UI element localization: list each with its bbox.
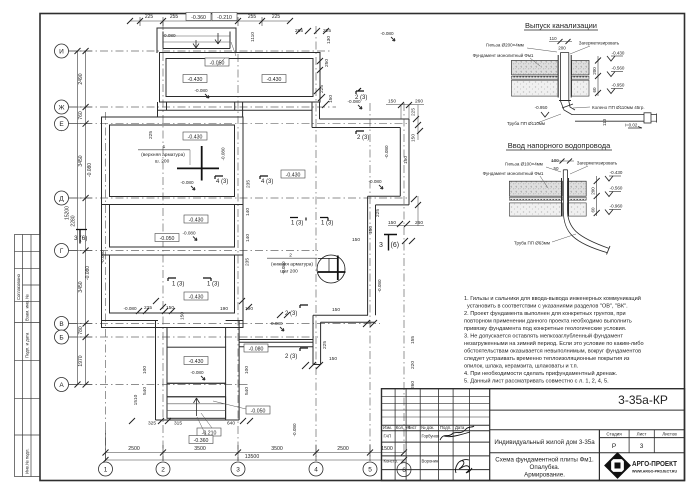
axis bubble 1 [99, 462, 113, 476]
svg-text:4 (3): 4 (3) [261, 179, 273, 185]
svg-text:Фундамент монолитный Фм1: Фундамент монолитный Фм1 [483, 170, 544, 176]
stairs landing [167, 383, 226, 397]
svg-text:Ж: Ж [58, 105, 64, 112]
right wing right wall [400, 119, 409, 205]
axis bubble Г [55, 244, 69, 258]
bottom axis bubbles [99, 462, 412, 477]
svg-text:200: 200 [592, 67, 597, 75]
svg-text:60: 60 [592, 87, 597, 93]
svg-text:опилок, шлака, керамзита, шлак: опилок, шлака, керамзита, шлаковаты и т.… [464, 364, 579, 370]
svg-text:-0.080: -0.080 [87, 163, 93, 177]
horizontal small dims on plan [144, 28, 423, 427]
svg-text:1: 1 [104, 467, 108, 474]
svg-text:-0.430: -0.430 [286, 173, 301, 179]
svg-text:1970: 1970 [78, 355, 84, 366]
axis bubble 2 [156, 462, 170, 476]
svg-text:-0.430: -0.430 [610, 170, 623, 175]
room G-V inner [110, 255, 235, 313]
svg-text:1 (3): 1 (3) [321, 221, 333, 227]
svg-text:-0.430: -0.430 [189, 218, 204, 224]
stairs up-arrow [194, 398, 200, 416]
left wing room E-D inner [110, 125, 235, 197]
axis bubble А [55, 378, 69, 392]
svg-text:225: 225 [319, 85, 325, 93]
sleeve [558, 55, 571, 98]
svg-text:235: 235 [245, 180, 251, 188]
bedding band [509, 203, 562, 216]
svg-text:Труба ПП Ø110мм: Труба ПП Ø110мм [507, 121, 545, 126]
svg-text:150: 150 [388, 99, 396, 105]
axis col 6 [403, 103, 405, 462]
waterproofing strip [509, 197, 562, 200]
axis col 4 [315, 26, 317, 461]
svg-text:Г: Г [60, 248, 64, 255]
axis bubble 3 [231, 462, 245, 476]
project name / sheet name [494, 439, 595, 479]
elbow 45deg [561, 101, 576, 115]
svg-text:-0.050: -0.050 [251, 409, 266, 415]
svg-text:Гильза Ø200×4мм: Гильза Ø200×4мм [486, 43, 524, 48]
stair treads [167, 404, 226, 411]
axis row И [69, 50, 332, 52]
svg-text:3 (6): 3 (6) [74, 235, 87, 242]
svg-text:Инв.№ подл.: Инв.№ подл. [25, 448, 30, 474]
svg-text:225: 225 [322, 341, 328, 349]
svg-text:Согласовано: Согласовано [16, 274, 21, 300]
pipe vertical + curve [563, 170, 608, 253]
svg-text:6: 6 [402, 467, 406, 474]
vertical dim line [596, 176, 598, 216]
right wing notch step [368, 196, 409, 205]
svg-text:150: 150 [352, 237, 360, 243]
svg-text:В: В [59, 321, 63, 328]
left wing room E-D outer [102, 117, 244, 205]
svg-text:2500: 2500 [128, 446, 140, 452]
axis row Ж [69, 106, 336, 108]
svg-text:ГАП: ГАП [384, 434, 392, 439]
svg-text:140: 140 [245, 234, 251, 242]
revision grid rows [382, 396, 490, 417]
svg-text:-0.080: -0.080 [368, 179, 381, 184]
svg-text:2 (3): 2 (3) [355, 95, 367, 101]
svg-text:1 (3): 1 (3) [172, 282, 184, 288]
plain -0.080 labels with slope arrows [100, 31, 395, 437]
svg-text:260: 260 [415, 99, 423, 105]
svg-text:-0.080: -0.080 [377, 279, 382, 292]
svg-text:60: 60 [591, 207, 596, 213]
svg-text:325: 325 [148, 421, 156, 427]
svg-text:150: 150 [329, 356, 337, 362]
svg-text:А: А [59, 382, 64, 389]
svg-text:Лист: Лист [637, 432, 647, 437]
svg-text:№ док.: № док. [421, 425, 434, 430]
svg-text:Загерметизировать: Загерметизировать [577, 161, 618, 166]
dimension ticks left chains [75, 48, 89, 388]
svg-text:обстоятельствам оказывается не: обстоятельствам оказывается невыполнимым… [464, 349, 641, 355]
wall band below top band [158, 109, 313, 111]
svg-text:-0.560: -0.560 [612, 66, 625, 71]
svg-text:255: 255 [170, 14, 179, 20]
wing dimension lines [386, 105, 424, 226]
svg-text:200: 200 [558, 46, 566, 51]
axis bubble И [55, 44, 69, 58]
svg-text:225: 225 [272, 14, 281, 20]
svg-text:1. Гильзы и сальники для ввода: 1. Гильзы и сальники для ввода-вывода ин… [464, 295, 641, 302]
top dimension chain over porch [130, 17, 290, 26]
leader lines for -0.210/-0.360 [197, 401, 246, 436]
svg-text:-0.430: -0.430 [612, 51, 625, 56]
svg-text:Загерметизировать: Загерметизировать [579, 41, 620, 46]
svg-text:(6): (6) [391, 242, 400, 249]
svg-text:100: 100 [551, 158, 559, 163]
elevation marks right side [612, 51, 625, 88]
svg-text:155: 155 [410, 336, 416, 344]
svg-text:4: 4 [314, 467, 318, 474]
foundation slab hatched band left/right [512, 60, 559, 75]
svg-text:1500: 1500 [381, 446, 393, 452]
svg-text:-0.430: -0.430 [267, 77, 282, 83]
svg-text:4. При необходимости сделать п: 4. При необходимости сделать прифундамен… [464, 370, 618, 377]
left vertical dimension chains [69, 51, 93, 385]
svg-text:Изм.: Изм. [383, 425, 392, 430]
coupling [644, 113, 651, 123]
svg-text:Гильза Ø100×4мм: Гильза Ø100×4мм [505, 162, 543, 167]
svg-text:-0.960: -0.960 [610, 204, 623, 209]
svg-text:шаг 200: шаг 200 [280, 269, 298, 275]
room D-G inner [110, 205, 235, 248]
svg-text:-0.080: -0.080 [85, 266, 91, 280]
waterproofing strip [512, 76, 559, 79]
svg-text:2 (3): 2 (3) [285, 311, 297, 317]
svg-text:Ввод напорного водопровода: Ввод напорного водопровода [508, 141, 611, 150]
svg-text:260: 260 [410, 381, 416, 389]
svg-text:150: 150 [368, 226, 374, 234]
svg-text:Стадия: Стадия [606, 432, 622, 437]
axis row А [69, 384, 250, 386]
right wing top wall [312, 119, 409, 128]
axis row Д [69, 197, 410, 199]
svg-text:200: 200 [591, 187, 596, 195]
section marker labels [74, 88, 399, 360]
right big room bottom wall row B [239, 340, 313, 347]
svg-text:2: 2 [161, 467, 165, 474]
axis bubble Ж [55, 100, 69, 114]
axis bubble Б [55, 330, 69, 344]
svg-text:5: 5 [368, 467, 372, 474]
svg-text:1110: 1110 [250, 32, 256, 42]
svg-text:2: 2 [289, 253, 292, 259]
svg-text:-0.080: -0.080 [194, 88, 207, 93]
svg-text:15200: 15200 [65, 206, 71, 220]
axis row В [69, 323, 380, 325]
svg-text:незагруженными на зимний перио: незагруженными на зимний период. Если эт… [464, 340, 644, 347]
svg-text:-0.360: -0.360 [194, 438, 209, 444]
svg-text:4 (3): 4 (3) [216, 179, 228, 185]
left chain dim texts (rotated) [65, 73, 94, 366]
svg-text:-0.430: -0.430 [189, 295, 204, 301]
svg-text:-0.950: -0.950 [612, 83, 625, 88]
sleeve [562, 178, 569, 216]
svg-text:повторном применении данного п: повторном применении данного проекта нео… [464, 319, 632, 325]
right wing bottom wall row V [313, 315, 375, 322]
svg-text:-0.080: -0.080 [249, 347, 264, 353]
svg-text:130: 130 [326, 36, 332, 44]
svg-text:110: 110 [602, 118, 607, 126]
svg-text:225: 225 [144, 305, 152, 311]
axis col 5 [369, 103, 371, 461]
axis bubble 6 [397, 463, 411, 477]
svg-text:3: 3 [640, 443, 644, 450]
svg-text:3500: 3500 [194, 446, 206, 452]
main horizontal lines [382, 410, 685, 470]
top band room outer [160, 53, 321, 103]
svg-text:3450: 3450 [78, 155, 84, 166]
axis bubble Е [55, 117, 69, 131]
svg-text:2 (3): 2 (3) [285, 354, 297, 360]
svg-text:100: 100 [142, 366, 148, 374]
svg-text:150: 150 [332, 307, 340, 313]
svg-text:Труба ПП Ø63мм: Труба ПП Ø63мм [514, 241, 550, 246]
axis row Г [69, 250, 318, 252]
bedding band [512, 80, 559, 96]
svg-text:225: 225 [148, 131, 154, 139]
svg-text:Колено ПП Ø110мм 45гр.: Колено ПП Ø110мм 45гр. [592, 105, 645, 110]
svg-text:3450: 3450 [78, 281, 84, 292]
boxed elevation labels [155, 58, 305, 444]
svg-text:(верхняя арматура): (верхняя арматура) [141, 152, 185, 158]
svg-text:760: 760 [78, 111, 84, 120]
axis row Б [69, 336, 318, 338]
svg-text:-0.430: -0.430 [189, 359, 204, 365]
svg-text:2 (3): 2 (3) [357, 135, 369, 141]
svg-text:255: 255 [248, 14, 257, 20]
section mark 2 (нижняя арматура) with circled cross [267, 253, 346, 284]
svg-text:-0.080: -0.080 [100, 250, 105, 263]
svg-text:235: 235 [245, 258, 251, 266]
svg-text:-0.210: -0.210 [217, 15, 232, 21]
svg-text:3500: 3500 [271, 446, 283, 452]
svg-text:1510: 1510 [133, 394, 139, 405]
svg-text:Схема фундаментной плиты Фм1.: Схема фундаментной плиты Фм1. [495, 457, 594, 464]
svg-text:ш. 200: ш. 200 [155, 159, 170, 165]
axis-4 wall going down [313, 315, 321, 364]
signatures (handwritten squiggles) [440, 426, 474, 473]
bottom extension left wall [156, 321, 168, 421]
svg-text:Подп. и дата: Подп. и дата [25, 332, 30, 358]
bottom extension right wall [226, 321, 240, 421]
svg-text:Констр.: Констр. [384, 459, 399, 464]
svg-text:5. Данный лист рассматривать с: 5. Данный лист рассматривать совместно с… [464, 378, 609, 385]
svg-text:-0.080: -0.080 [380, 31, 393, 36]
svg-text:-0.560: -0.560 [610, 186, 623, 191]
svg-text:150: 150 [180, 312, 186, 320]
axis bubble 4 [309, 462, 323, 476]
АРГО-ПРОЕКТ logo [605, 453, 677, 477]
axis col 3 [237, 54, 239, 461]
svg-text:-0.430: -0.430 [188, 135, 203, 141]
axis col 2 [162, 22, 164, 461]
boxed elevations on top chain [186, 13, 237, 22]
porch step lines [163, 36, 230, 42]
svg-text:2490: 2490 [78, 73, 84, 84]
vertical small dims on plan [133, 32, 417, 406]
svg-text:Р: Р [612, 443, 616, 450]
svg-text:2. Проект фундамента выполнен: 2. Проект фундамента выполнен для конкре… [464, 311, 626, 317]
top 110 dim ticks [558, 39, 571, 44]
section mark 1 (верхняя арматура) with cross [138, 144, 219, 181]
bottom dimension chains [106, 430, 405, 461]
svg-text:И: И [59, 49, 64, 56]
svg-text:-0.080: -0.080 [221, 147, 226, 160]
svg-text:Подп.: Подп. [440, 425, 451, 430]
svg-text:-0.080: -0.080 [190, 370, 203, 375]
room G-V outer [102, 255, 244, 328]
svg-text:540: 540 [142, 387, 148, 395]
svg-text:260: 260 [415, 220, 423, 226]
svg-text:3: 3 [379, 242, 383, 249]
svg-text:установить в соответствии с ук: установить в соответствии с указаниями р… [467, 304, 628, 310]
svg-text:-0.080: -0.080 [182, 231, 195, 236]
axis row Е [69, 123, 410, 125]
svg-text:110: 110 [549, 36, 557, 41]
svg-text:Индивидуальный жилой дом 3-35а: Индивидуальный жилой дом 3-35а [494, 439, 595, 446]
left margin attribute strip [15, 235, 41, 477]
svg-text:Горбунов: Горбунов [422, 434, 441, 439]
svg-text:-0.950: -0.950 [535, 105, 548, 110]
porch walls [157, 28, 236, 53]
svg-text:-0.080: -0.080 [269, 321, 282, 326]
axis bubble 5 [363, 462, 377, 476]
svg-text:-0.080: -0.080 [292, 423, 297, 436]
svg-text:-0.430: -0.430 [188, 77, 203, 83]
svg-text:Листов: Листов [662, 432, 677, 437]
svg-text:1 (3): 1 (3) [291, 221, 303, 227]
svg-text:150: 150 [388, 220, 396, 226]
top band room inner [166, 59, 313, 97]
axis col 1 [105, 112, 107, 461]
svg-text:Фундамент монолитный Фм1: Фундамент монолитный Фм1 [473, 52, 534, 58]
svg-text:100: 100 [244, 366, 250, 374]
svg-text:Воронин: Воронин [422, 459, 439, 464]
leader texts [473, 36, 645, 128]
axis bubble Д [55, 191, 69, 205]
svg-text:780: 780 [78, 326, 84, 335]
svg-text:АРГО-ПРОЕКТ: АРГО-ПРОЕКТ [632, 459, 677, 468]
bottom extension small room inner [167, 347, 226, 383]
svg-text:Дата: Дата [455, 425, 465, 430]
svg-text:Лист: Лист [408, 425, 417, 430]
porch down arrows [193, 40, 199, 48]
vertical lines [395, 389, 654, 481]
svg-text:привязку фундамента под конкре: привязку фундамента под конкретные геоло… [464, 326, 627, 332]
svg-text:150: 150 [403, 156, 409, 164]
svg-text:Е: Е [59, 121, 64, 128]
svg-text:13500: 13500 [245, 454, 260, 460]
vertical pipe [561, 53, 569, 102]
svg-text:(нижняя арматура): (нижняя арматура) [271, 262, 313, 268]
svg-text:следует устраивать временно те: следует устраивать временно теплоизоляци… [464, 356, 630, 362]
stage/sheet cells [606, 432, 677, 437]
svg-text:640: 640 [227, 421, 235, 427]
svg-text:3-35а-КР: 3-35а-КР [618, 393, 668, 407]
svg-text:-0.360: -0.360 [191, 15, 206, 21]
title block outer [382, 389, 685, 481]
svg-text:1 (3): 1 (3) [207, 282, 219, 288]
svg-text:315: 315 [174, 421, 182, 427]
svg-text:250: 250 [324, 59, 330, 67]
svg-text:190: 190 [220, 306, 228, 312]
svg-text:150: 150 [411, 134, 417, 142]
svg-text:i=0.02: i=0.02 [625, 123, 638, 128]
svg-text:Опалубка.: Опалубка. [530, 464, 560, 471]
svg-text:Выпуск канализации: Выпуск канализации [525, 21, 597, 30]
svg-text:Д: Д [59, 196, 64, 203]
axis bubble В [55, 317, 69, 331]
horizontal pipe [572, 115, 650, 122]
svg-text:540: 540 [244, 387, 250, 395]
svg-text:225: 225 [145, 14, 154, 20]
left strip rotated labels [16, 274, 30, 474]
svg-text:225: 225 [375, 209, 381, 217]
header tiny texts [383, 425, 465, 464]
svg-text:1: 1 [163, 144, 166, 150]
wall stubs at cols 2,3,4 [158, 102, 320, 128]
svg-text:-0.080: -0.080 [180, 180, 193, 185]
leader texts [483, 158, 618, 246]
svg-text:3: 3 [236, 467, 240, 474]
svg-text:WWW.ARGO-PROJECT.RU: WWW.ARGO-PROJECT.RU [632, 470, 677, 474]
svg-text:140: 140 [245, 208, 251, 216]
svg-text:-0.080: -0.080 [384, 145, 389, 158]
svg-text:2280: 2280 [71, 215, 77, 226]
svg-text:225: 225 [411, 108, 417, 116]
elevation marks right side [610, 170, 623, 209]
vertical dim line [597, 56, 599, 96]
svg-text:Армирование.: Армирование. [524, 472, 565, 479]
svg-text:3. Не допускается оставлять ме: 3. Не допускается оставлять мелкозаглубл… [464, 333, 623, 340]
svg-text:-0.080: -0.080 [123, 306, 136, 311]
room D-G outer bottom [102, 205, 244, 256]
svg-text:2500: 2500 [337, 446, 349, 452]
leader lines [527, 46, 590, 123]
slab hatched band [509, 181, 562, 196]
svg-text:-0.080: -0.080 [162, 33, 175, 38]
svg-text:220: 220 [410, 361, 416, 369]
hatch tick groups (wall end markers) [129, 28, 423, 424]
svg-text:Взам. инв. №: Взам. инв. № [25, 294, 30, 321]
svg-text:-0.050: -0.050 [160, 236, 175, 242]
svg-text:Б: Б [59, 335, 63, 342]
